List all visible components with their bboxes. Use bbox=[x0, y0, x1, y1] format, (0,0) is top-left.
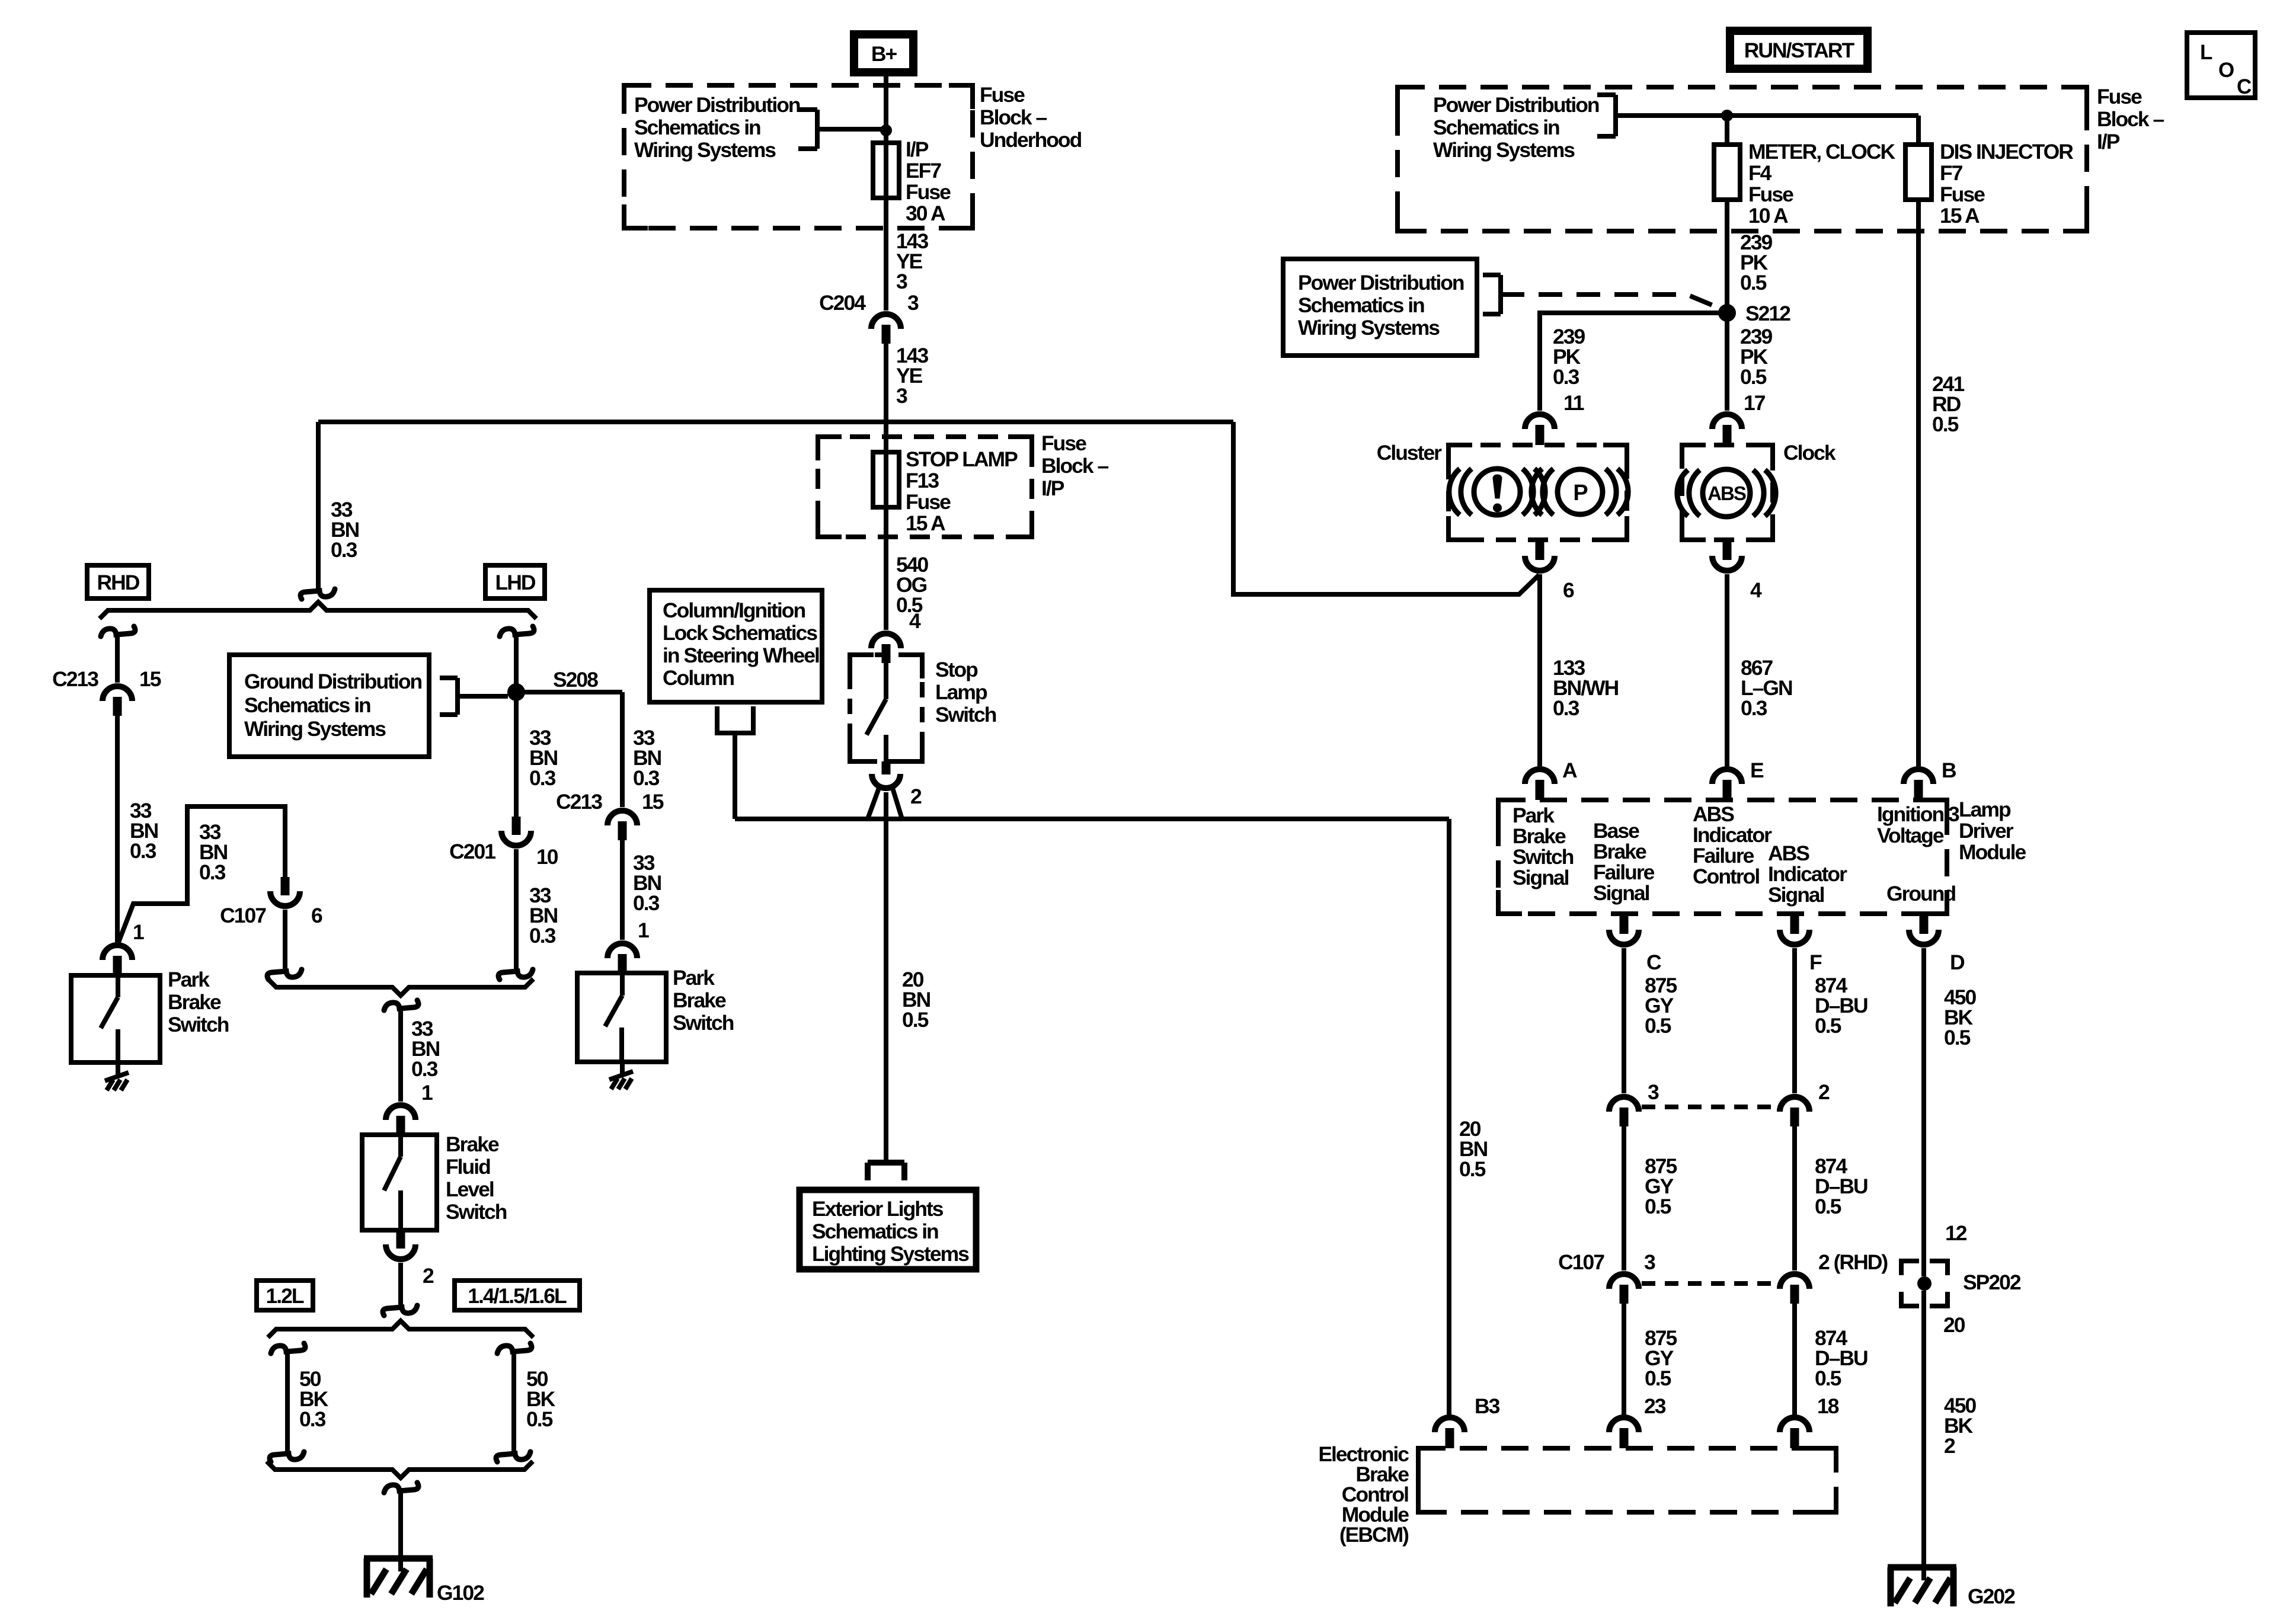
svg-text:ABS: ABS bbox=[1693, 802, 1734, 826]
bracket - ground distribution reference link bbox=[440, 676, 458, 680]
svg-text:0.5: 0.5 bbox=[1815, 1366, 1841, 1390]
svg-text:0.5: 0.5 bbox=[1645, 1014, 1671, 1038]
svg-text:Signal: Signal bbox=[1768, 883, 1824, 907]
box - Exterior Lights Schematics in Lighting Systems bbox=[868, 1160, 904, 1166]
svg-text:Ground Distribution: Ground Distribution bbox=[244, 670, 422, 693]
connector - lamp driver module pin F bbox=[1790, 914, 1799, 934]
svg-text:Power Distribution: Power Distribution bbox=[634, 93, 800, 117]
wire break curl - RHD branch top bbox=[101, 626, 135, 636]
svg-text:0.3: 0.3 bbox=[529, 766, 556, 790]
svg-text:Ground: Ground bbox=[1886, 882, 1955, 905]
wire - 540 OG from fuse F13 to stop lamp switch bbox=[884, 537, 888, 630]
svg-text:I/P: I/P bbox=[1041, 476, 1064, 500]
svg-text:Brake: Brake bbox=[168, 990, 221, 1014]
svg-text:RHD: RHD bbox=[97, 571, 140, 594]
wire - below C107 pin 6 to brace bbox=[283, 910, 287, 971]
connector - cluster pin 6 bbox=[1536, 540, 1544, 560]
svg-text:STOP LAMP: STOP LAMP bbox=[906, 447, 1018, 471]
wire - S212 down to clock pin 17 bbox=[1725, 321, 1729, 411]
svg-text:1: 1 bbox=[638, 918, 649, 942]
wire - S208 to C201 (LHD) bbox=[514, 699, 519, 817]
indicator - park brake lamp (P) bbox=[1558, 469, 1603, 514]
svg-text:4: 4 bbox=[909, 609, 921, 633]
wire - F7 branch down bbox=[1916, 116, 1921, 145]
wire break curl - 50 BK 0.3 top bbox=[271, 1343, 305, 1353]
fuse block I/P dashed box (right) bbox=[1398, 87, 2087, 231]
svg-text:Park: Park bbox=[168, 968, 210, 991]
park brake switch box (LHD) bbox=[577, 973, 666, 1062]
wire - horizontal 20 BN from column/ignition stem to EBCM branch bbox=[735, 817, 1449, 821]
wire break curl above G102 wire bbox=[384, 1483, 418, 1493]
bracket - power distribution reference (I/P) bbox=[1597, 92, 1616, 97]
svg-text:0.3: 0.3 bbox=[411, 1057, 438, 1081]
svg-text:3: 3 bbox=[1644, 1250, 1655, 1274]
svg-text:0.5: 0.5 bbox=[1740, 271, 1767, 295]
svg-text:Brake: Brake bbox=[1512, 824, 1566, 848]
wire - to ground G102 bbox=[398, 1491, 403, 1571]
wire - pin 2 down to engine variant brace bbox=[398, 1263, 403, 1307]
svg-text:0.3: 0.3 bbox=[1741, 696, 1767, 720]
cluster dashed box bbox=[1448, 445, 1627, 540]
svg-text:4: 4 bbox=[1750, 578, 1762, 602]
svg-text:F13: F13 bbox=[906, 469, 939, 492]
svg-text:Fuse: Fuse bbox=[980, 83, 1025, 107]
svg-text:Level: Level bbox=[446, 1177, 494, 1201]
svg-text:0.5: 0.5 bbox=[1932, 412, 1959, 436]
node - junction on B+ feed bbox=[880, 124, 892, 136]
svg-text:6: 6 bbox=[1563, 578, 1574, 602]
svg-text:Ignition 3: Ignition 3 bbox=[1877, 802, 1959, 826]
svg-text:Power Distribution: Power Distribution bbox=[1298, 271, 1464, 295]
wire - below C201 to brace bbox=[514, 849, 519, 971]
bracket - column/ignition reference stem bbox=[717, 706, 753, 733]
svg-text:1.4/1.5/1.6L: 1.4/1.5/1.6L bbox=[468, 1284, 567, 1308]
svg-text:B: B bbox=[1942, 758, 1956, 782]
wire - RHD branch to C213 bbox=[115, 635, 120, 683]
box LHD bbox=[485, 565, 545, 598]
svg-text:Wiring Systems: Wiring Systems bbox=[244, 717, 386, 741]
svg-text:C213: C213 bbox=[52, 667, 98, 691]
svg-text:B3: B3 bbox=[1475, 1394, 1500, 1418]
svg-text:0.3: 0.3 bbox=[299, 1407, 326, 1431]
wire - 143 YE from C204 to branch junction bbox=[884, 344, 888, 422]
svg-text:30 A: 30 A bbox=[906, 201, 945, 225]
ground - park brake switch LHD bbox=[609, 1071, 633, 1080]
svg-text:0.5: 0.5 bbox=[1459, 1157, 1486, 1181]
wire - 143 YE feed to cluster pin 6 (from stop lamp circuit) bbox=[1233, 422, 1539, 594]
svg-text:I/P: I/P bbox=[2097, 130, 2120, 153]
brace - engine variant merge to G102 bbox=[267, 1461, 533, 1478]
svg-text:S208: S208 bbox=[553, 668, 598, 692]
svg-text:Switch: Switch bbox=[935, 703, 996, 726]
fuse block I/P dashed box (stop lamp fuse) bbox=[818, 437, 1032, 537]
svg-text:Clock: Clock bbox=[1783, 441, 1836, 465]
wire - horizontal distribution 143 YE from left branch to right branch bbox=[318, 420, 1233, 424]
svg-text:0.3: 0.3 bbox=[633, 891, 660, 915]
svg-text:Base: Base bbox=[1593, 819, 1639, 843]
svg-text:Brake: Brake bbox=[673, 988, 726, 1012]
svg-text:0.3: 0.3 bbox=[633, 766, 660, 790]
wire - 875 GY middle segment bbox=[1622, 1126, 1626, 1270]
svg-text:0.5: 0.5 bbox=[1740, 365, 1767, 389]
switch blade - brake fluid level switch bbox=[398, 1135, 403, 1157]
wire - 33 BN RHD down to park brake switch bbox=[115, 716, 120, 942]
wire - stop lamp switch output down to exterior lights bbox=[884, 792, 888, 1161]
svg-text:0.3: 0.3 bbox=[130, 839, 156, 863]
svg-text:Fuse: Fuse bbox=[906, 180, 951, 204]
terminal B+ bbox=[850, 30, 917, 76]
brace - RHD/LHD merge above brake fluid level switch bbox=[268, 979, 533, 996]
splice SP202 bbox=[1901, 1261, 1919, 1275]
svg-text:Underhood: Underhood bbox=[980, 128, 1082, 152]
svg-text:ABS: ABS bbox=[1768, 841, 1809, 865]
wire - clock pin 4 down to lamp driver module pin E bbox=[1725, 574, 1729, 766]
svg-text:Column/Ignition: Column/Ignition bbox=[663, 598, 805, 622]
svg-text:L: L bbox=[2200, 41, 2212, 64]
svg-text:Block –: Block – bbox=[1041, 454, 1109, 478]
bracket - power distribution reference to S212 bbox=[1483, 273, 1501, 277]
box 1.4/1.5/1.6L bbox=[455, 1281, 580, 1310]
clock dashed box bbox=[1682, 445, 1773, 540]
svg-text:DIS INJECTOR: DIS INJECTOR bbox=[1940, 140, 2073, 164]
svg-text:C107: C107 bbox=[220, 904, 266, 927]
ground G102 bbox=[364, 1555, 433, 1562]
svg-text:10: 10 bbox=[536, 845, 558, 869]
svg-text:2: 2 bbox=[910, 785, 922, 808]
wire - 875 GY lower segment to EBCM pin 23 bbox=[1622, 1304, 1626, 1415]
svg-text:6: 6 bbox=[311, 904, 322, 927]
svg-text:Fluid: Fluid bbox=[446, 1155, 490, 1179]
wire - 20 BN from stop lamp circuit down to EBCM pin B3 bbox=[1447, 819, 1451, 1415]
fuse STOP LAMP F13 15A bbox=[873, 452, 899, 507]
fuse I/P EF7 30A bbox=[873, 143, 899, 198]
svg-text:0.5: 0.5 bbox=[1645, 1195, 1671, 1218]
svg-text:0.5: 0.5 bbox=[1815, 1014, 1841, 1038]
svg-text:2: 2 bbox=[423, 1264, 434, 1288]
wire - 50 BK 0.3 (1.2L) bbox=[285, 1352, 290, 1453]
svg-text:Block –: Block – bbox=[980, 105, 1047, 129]
svg-text:0.3: 0.3 bbox=[1553, 696, 1579, 720]
svg-text:20: 20 bbox=[1943, 1313, 1965, 1337]
connector - clock pin 4 bbox=[1723, 540, 1732, 560]
svg-text:S212: S212 bbox=[1745, 302, 1790, 325]
svg-text:Schematics in: Schematics in bbox=[812, 1219, 938, 1243]
box - Ground Distribution Schematics in Wiring Systems bbox=[229, 655, 429, 757]
svg-text:Control: Control bbox=[1693, 865, 1759, 888]
svg-text:(EBCM): (EBCM) bbox=[1339, 1523, 1409, 1547]
stop lamp switch dashed box bbox=[850, 655, 922, 761]
svg-text:Voltage: Voltage bbox=[1877, 824, 1944, 847]
brace - engine variant split bbox=[268, 1321, 533, 1337]
svg-text:C: C bbox=[2237, 75, 2252, 98]
svg-text:Module: Module bbox=[1959, 840, 2026, 864]
svg-text:Exterior Lights: Exterior Lights bbox=[812, 1197, 944, 1221]
svg-text:23: 23 bbox=[1644, 1394, 1666, 1418]
svg-text:LHD: LHD bbox=[495, 571, 536, 594]
box - Column/Ignition Lock Schematics in Steering Wheel Column bbox=[650, 590, 822, 702]
svg-text:10 A: 10 A bbox=[1748, 204, 1788, 228]
wire - C213 to park brake switch (LHD) bbox=[620, 840, 625, 940]
svg-text:0.3: 0.3 bbox=[1553, 365, 1579, 389]
ground G202 bbox=[1888, 1564, 1956, 1571]
svg-text:O: O bbox=[2218, 59, 2234, 82]
svg-text:Lighting Systems: Lighting Systems bbox=[812, 1242, 969, 1266]
svg-text:12: 12 bbox=[1945, 1221, 1967, 1245]
svg-text:Column: Column bbox=[663, 666, 734, 690]
svg-text:11: 11 bbox=[1563, 391, 1584, 415]
fuse DIS INJECTOR F7 15A bbox=[1905, 145, 1932, 200]
svg-text:Driver: Driver bbox=[1959, 819, 2014, 843]
dashed reference link to S212 bbox=[1501, 295, 1722, 309]
svg-text:0.3: 0.3 bbox=[199, 860, 226, 884]
svg-text:SP202: SP202 bbox=[1963, 1270, 2021, 1294]
park brake switch box (RHD) bbox=[71, 975, 160, 1062]
svg-text:2: 2 bbox=[1944, 1434, 1955, 1458]
wire - 874 D-BU lower segment to EBCM pin 18 bbox=[1792, 1304, 1797, 1415]
indicator - ABS lamp bbox=[1703, 469, 1750, 517]
svg-text:METER, CLOCK: METER, CLOCK bbox=[1748, 140, 1896, 164]
svg-text:Schematics in: Schematics in bbox=[1298, 293, 1424, 317]
svg-text:Lamp: Lamp bbox=[935, 680, 987, 704]
svg-text:Switch: Switch bbox=[446, 1200, 507, 1224]
wire - 50 BK 0.5 (1.4/1.5/1.6L) bbox=[511, 1352, 516, 1453]
wire break curl - LHD branch top bbox=[500, 626, 534, 636]
svg-text:F4: F4 bbox=[1748, 161, 1772, 185]
svg-text:18: 18 bbox=[1817, 1394, 1839, 1418]
svg-text:Switch: Switch bbox=[1512, 845, 1574, 869]
EBCM dashed box bbox=[1418, 1448, 1836, 1512]
svg-text:1: 1 bbox=[133, 920, 144, 944]
svg-text:0.5: 0.5 bbox=[1645, 1366, 1671, 1390]
lamp driver module dashed box bbox=[1498, 800, 1947, 914]
svg-text:A: A bbox=[1562, 758, 1577, 782]
ground - park brake switch RHD bbox=[105, 1073, 129, 1081]
wire - 450 BK pin D to SP202 bbox=[1921, 948, 1926, 1276]
svg-text:Fuse: Fuse bbox=[1041, 431, 1086, 455]
svg-text:RUN/START: RUN/START bbox=[1744, 39, 1855, 62]
svg-text:F: F bbox=[1809, 950, 1822, 974]
wire - 33 BN left branch down to RHD/LHD brace bbox=[316, 422, 321, 590]
svg-text:D: D bbox=[1950, 950, 1965, 974]
svg-text:Stop: Stop bbox=[935, 658, 978, 681]
svg-text:Brake: Brake bbox=[446, 1132, 499, 1156]
wire - B+ feed from fuse EF7 down to C204 bbox=[884, 76, 888, 311]
svg-text:0.5: 0.5 bbox=[1815, 1195, 1841, 1218]
brake fluid level switch box bbox=[362, 1135, 437, 1230]
svg-text:0.5: 0.5 bbox=[1944, 1026, 1971, 1049]
svg-text:C107: C107 bbox=[1558, 1250, 1604, 1274]
box LOC legend bbox=[2187, 33, 2255, 98]
svg-text:Schematics in: Schematics in bbox=[634, 116, 760, 139]
svg-text:0.5: 0.5 bbox=[526, 1407, 553, 1431]
svg-text:F7: F7 bbox=[1940, 161, 1963, 185]
svg-text:17: 17 bbox=[1744, 391, 1766, 415]
wire - 875 GY pin C to inline connector bbox=[1622, 948, 1626, 1093]
svg-text:Fuse: Fuse bbox=[1940, 183, 1985, 206]
wire - cluster pin 6 down to lamp driver module pin A bbox=[1537, 574, 1542, 766]
box 1.2L bbox=[257, 1281, 313, 1310]
dashed link - C107 connector row bbox=[1642, 1281, 1780, 1286]
svg-text:Cluster: Cluster bbox=[1377, 441, 1442, 465]
svg-text:Lock Schematics: Lock Schematics bbox=[663, 621, 817, 645]
svg-text:C213: C213 bbox=[556, 790, 602, 814]
node - junction at F4 branch bbox=[1721, 110, 1733, 121]
wire - 874 D-BU middle segment bbox=[1792, 1126, 1797, 1270]
wire - 450 BK SP202 to G202 bbox=[1921, 1291, 1926, 1580]
svg-text:Signal: Signal bbox=[1593, 881, 1649, 905]
svg-text:Power Distribution: Power Distribution bbox=[1433, 93, 1599, 117]
svg-text:Signal: Signal bbox=[1512, 866, 1569, 889]
svg-text:C: C bbox=[1646, 950, 1661, 974]
box - Power Distribution Schematics in Wiring Systems (reference) bbox=[1283, 259, 1477, 356]
wire - park brake switch (RHD) to ground bbox=[116, 1062, 120, 1075]
svg-text:Switch: Switch bbox=[673, 1011, 734, 1035]
wire - 241 RD from F7 to lamp driver module pin B bbox=[1916, 200, 1921, 766]
svg-text:in Steering Wheel: in Steering Wheel bbox=[663, 644, 819, 667]
fuse METER CLOCK F4 10A bbox=[1714, 145, 1740, 200]
svg-text:Brake: Brake bbox=[1593, 840, 1646, 863]
wire - S212 left branch to cluster pin 11 bbox=[1540, 313, 1721, 411]
svg-text:Wiring Systems: Wiring Systems bbox=[1298, 316, 1440, 340]
svg-text:ABS: ABS bbox=[1707, 482, 1746, 504]
svg-text:0.5: 0.5 bbox=[902, 1008, 929, 1032]
wire - 239 PK from F4 to S212 bbox=[1725, 200, 1729, 305]
wire - branch to C107 pin 6 (step) bbox=[119, 806, 285, 942]
brace - RHD/LHD harness split bbox=[100, 602, 536, 619]
wire break curl above RHD/LHD brace bbox=[300, 589, 335, 599]
svg-text:Block –: Block – bbox=[2097, 107, 2164, 131]
svg-text:Lamp: Lamp bbox=[1959, 798, 2011, 821]
svg-text:Fuse: Fuse bbox=[2097, 85, 2142, 108]
svg-text:Indicator: Indicator bbox=[1693, 823, 1772, 847]
svg-text:Park: Park bbox=[1512, 804, 1555, 827]
svg-text:15 A: 15 A bbox=[906, 511, 945, 535]
svg-text:E: E bbox=[1750, 758, 1764, 782]
svg-text:Failure: Failure bbox=[1693, 844, 1754, 868]
svg-text:P: P bbox=[1573, 481, 1588, 505]
svg-text:Wiring Systems: Wiring Systems bbox=[634, 138, 776, 162]
svg-text:15: 15 bbox=[139, 667, 161, 691]
connector - lamp driver module pin D bbox=[1920, 914, 1929, 934]
switch blade - park brake switch (LHD) bbox=[620, 973, 625, 996]
wire - 143 YE into stop lamp fuse bbox=[884, 422, 888, 537]
box RHD bbox=[87, 565, 149, 598]
svg-text:Indicator: Indicator bbox=[1768, 862, 1847, 886]
wire - S208 right branch to C213 (LHD park brake) bbox=[522, 690, 622, 694]
svg-text:Schematics in: Schematics in bbox=[244, 693, 370, 717]
bracket - reference link to power distribution (underhood) bbox=[798, 107, 817, 112]
svg-text:1.2L: 1.2L bbox=[266, 1284, 303, 1308]
svg-text:3: 3 bbox=[907, 291, 919, 315]
wire - 874 D-BU pin F to inline connector bbox=[1792, 948, 1797, 1093]
switch blade - stop lamp switch bbox=[884, 663, 888, 699]
svg-text:3: 3 bbox=[1648, 1080, 1659, 1104]
svg-text:G202: G202 bbox=[1968, 1585, 2015, 1608]
svg-text:Switch: Switch bbox=[168, 1013, 229, 1036]
svg-text:0.3: 0.3 bbox=[529, 924, 556, 948]
svg-text:15: 15 bbox=[642, 790, 664, 814]
wire - LHD branch to S208 bbox=[514, 635, 519, 686]
svg-text:Fuse: Fuse bbox=[906, 490, 951, 514]
svg-text:2: 2 bbox=[1818, 1080, 1830, 1104]
wire - F4 branch down bbox=[1725, 116, 1729, 145]
svg-text:3: 3 bbox=[896, 384, 907, 408]
wire - park brake switch (LHD) to ground bbox=[620, 1062, 625, 1074]
svg-text:2 (RHD): 2 (RHD) bbox=[1818, 1250, 1888, 1274]
svg-text:B+: B+ bbox=[871, 42, 897, 66]
svg-text:G102: G102 bbox=[437, 1581, 484, 1605]
svg-text:Failure: Failure bbox=[1593, 860, 1655, 884]
fuse block underhood dashed box bbox=[624, 85, 973, 228]
svg-text:0.3: 0.3 bbox=[331, 538, 357, 562]
svg-text:I/P: I/P bbox=[906, 137, 929, 161]
svg-text:C201: C201 bbox=[449, 840, 495, 863]
wire - 33 BN to brake fluid level switch bbox=[398, 1009, 403, 1102]
svg-text:EF7: EF7 bbox=[906, 159, 941, 183]
wire - ignition feed to fuses F4/F7 bbox=[1616, 113, 1918, 118]
svg-text:1: 1 bbox=[421, 1081, 433, 1105]
indicator - brake warning lamp (!) bbox=[1474, 469, 1520, 515]
connector - lamp driver module pin C bbox=[1620, 914, 1629, 934]
svg-text:3: 3 bbox=[896, 270, 907, 293]
terminal RUN/START bbox=[1726, 27, 1872, 73]
svg-text:Park: Park bbox=[673, 966, 715, 990]
svg-text:Schematics in: Schematics in bbox=[1433, 116, 1559, 139]
svg-text:C204: C204 bbox=[819, 291, 866, 315]
switch blade - park brake switch (RHD) bbox=[116, 975, 120, 997]
svg-text:15 A: 15 A bbox=[1940, 204, 1980, 228]
dashed link - inline connector row bbox=[1642, 1105, 1780, 1109]
svg-text:Fuse: Fuse bbox=[1748, 183, 1793, 206]
svg-text:Wiring Systems: Wiring Systems bbox=[1433, 138, 1575, 162]
wire break curl below merge brace bbox=[384, 1000, 418, 1010]
wire break curl - 50 BK 0.5 top bbox=[497, 1343, 532, 1353]
